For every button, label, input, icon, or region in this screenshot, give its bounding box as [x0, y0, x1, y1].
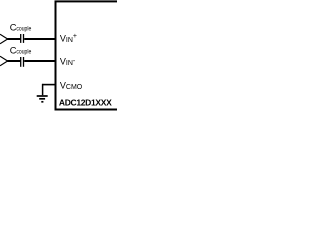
capacitor Ccouple (VIN+ path) left plate	[20, 34, 22, 43]
capacitor Ccouple (VIN- path) right plate	[23, 57, 25, 67]
wire VIN- left segment	[7, 60, 20, 62]
wire VIN+ left segment	[7, 38, 20, 40]
ground symbol bar 1	[37, 95, 48, 97]
wire VCMO to ground	[42, 84, 56, 86]
ground symbol bar 2	[39, 98, 45, 100]
source connector chevron (VIN- input)	[0, 56, 8, 66]
capacitor Ccouple (VIN+ path) right plate	[23, 34, 25, 43]
wire VIN- right segment to box	[24, 60, 56, 62]
svg-text:ADC12D1XXX: ADC12D1XXX	[59, 97, 112, 107]
ground symbol bar 3	[41, 101, 43, 103]
wire VCMO vertical segment	[42, 84, 44, 95]
wire VIN+ right segment to box	[24, 38, 56, 40]
source connector chevron (VIN+ input)	[0, 34, 8, 44]
capacitor Ccouple (VIN- path) left plate	[20, 57, 22, 67]
ADC U1 box outline	[56, 1, 136, 109]
background	[0, 0, 117, 111]
